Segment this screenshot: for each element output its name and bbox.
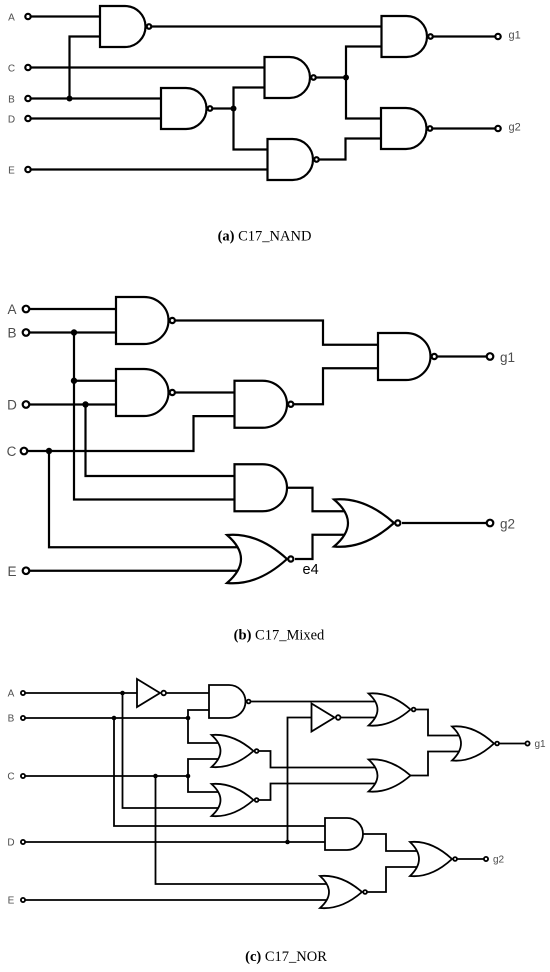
wire input D to NAND U2 pin 2 bbox=[28, 117, 161, 119]
input terminal C bbox=[21, 774, 25, 778]
wire NOR U23 output to terminal g1 bbox=[500, 743, 528, 745]
output terminal g2 bbox=[487, 520, 494, 527]
wire input D to NAND U8 pin 2 bbox=[26, 403, 116, 405]
wire node C2 down to NOR U17 pin 1 bbox=[188, 776, 226, 792]
wire node C down to NOR U11 pin 1 bbox=[49, 451, 242, 547]
junction node C on input C line bbox=[46, 448, 52, 454]
NOR gate U11 inputs C,E output e4 bbox=[227, 535, 293, 584]
wire node B down to AND U10 pin 2 bbox=[74, 333, 236, 500]
AND gate U19 bbox=[325, 818, 363, 850]
wire input C to NAND U9 pin 2 bbox=[24, 416, 236, 451]
NAND gate U3 inputs C,N1 bbox=[265, 57, 316, 98]
wire input C line bbox=[23, 775, 188, 777]
junction node B on input B line bbox=[67, 96, 73, 102]
inverter U14 input A bbox=[137, 679, 166, 707]
inverter U18 input D bbox=[312, 704, 341, 732]
input terminal A bbox=[23, 306, 30, 313]
wire input A to NAND U7 pin 1 bbox=[26, 308, 116, 310]
wire inverter U18 output to NOR U20 pin 2 bbox=[341, 717, 383, 719]
wire node C down to NOR U21 pin 1 bbox=[156, 776, 335, 884]
wire node N1 to NAND U3 pin 2 bbox=[234, 88, 267, 109]
output terminal g1 bbox=[487, 353, 494, 360]
svg-text:(c) C17_NOR: (c) C17_NOR bbox=[245, 949, 327, 965]
svg-text:E: E bbox=[7, 564, 16, 579]
wire NAND U8 output to NAND U9 pin 1 bbox=[169, 391, 237, 393]
AND gate U10 inputs D,B bbox=[235, 464, 288, 511]
wire input E to NOR U21 pin 2 bbox=[23, 899, 334, 901]
wire NOR U21 output to NOR U24 pin 2 bbox=[368, 867, 425, 892]
input terminal E bbox=[21, 898, 25, 902]
wire NAND U5 output to terminal g1 bbox=[427, 35, 498, 37]
svg-text:B: B bbox=[8, 714, 15, 725]
input terminal E bbox=[25, 167, 30, 172]
junction node D on input D line bbox=[82, 401, 88, 407]
wire NOR U20 output to NOR U23 pin 1 bbox=[416, 710, 467, 736]
NAND gate U2 inputs B,D bbox=[161, 88, 212, 129]
output terminal g1 bbox=[495, 34, 500, 39]
wire OR U22 output to NOR U23 pin 2 bbox=[411, 752, 467, 776]
NAND gate U8 inputs B,D bbox=[116, 369, 175, 416]
wire NOR U16 output to OR U22 pin 1 bbox=[259, 751, 383, 768]
junction node N2 at NAND U3 output bbox=[343, 75, 349, 81]
svg-text:B: B bbox=[7, 326, 16, 341]
output terminal g2 bbox=[484, 857, 488, 861]
input terminal B bbox=[23, 329, 30, 336]
wire NOR U13 output to terminal g2 bbox=[402, 522, 490, 524]
NAND gate U6 output g2 bbox=[381, 108, 432, 149]
output terminal g1 bbox=[525, 741, 529, 745]
svg-text:g2: g2 bbox=[500, 517, 515, 532]
input terminal A bbox=[25, 14, 30, 19]
wire input E to NAND U4 pin 2 bbox=[28, 168, 269, 170]
svg-text:D: D bbox=[8, 115, 15, 126]
wire NAND U2 output to node N1 bbox=[207, 107, 234, 109]
wire AND U10 output to NOR U13 pin 1 bbox=[287, 488, 348, 512]
wire NOR U24 output to terminal g2 bbox=[458, 858, 487, 860]
junction node B on input B line bbox=[71, 329, 77, 335]
input terminal D bbox=[21, 840, 25, 844]
input terminal D bbox=[25, 116, 30, 121]
wire node N1 to NAND U4 pin 1 bbox=[234, 109, 270, 150]
wire NOR U11 e4 output to NOR U13 pin 2 bbox=[295, 535, 348, 559]
wire NAND U3 output to node N2 bbox=[310, 76, 346, 78]
wire input A to inverter U14 bbox=[23, 692, 137, 694]
junction node B2 on B vertical bbox=[71, 378, 77, 384]
junction node C2 on input C line bbox=[186, 774, 191, 779]
svg-text:B: B bbox=[8, 95, 15, 106]
wire NAND U6 output to terminal g2 bbox=[427, 127, 499, 129]
wire node N2 to NAND U5 pin 2 bbox=[346, 47, 383, 78]
junction node B2 on input B line bbox=[186, 716, 191, 721]
wire input B to NAND U2 pin 1 bbox=[28, 97, 161, 99]
junction node A on input A line bbox=[120, 691, 125, 696]
svg-text:g2: g2 bbox=[509, 122, 521, 134]
input terminal B bbox=[25, 96, 30, 101]
svg-text:g1: g1 bbox=[535, 739, 547, 750]
svg-text:(b) C17_Mixed: (b) C17_Mixed bbox=[234, 628, 325, 644]
wire NAND U12 output to terminal g1 bbox=[431, 355, 491, 357]
wire NAND U7 output to NAND U12 pin 1 bbox=[169, 321, 379, 345]
wire input B line bbox=[23, 717, 188, 719]
svg-text:D: D bbox=[7, 398, 17, 413]
input terminal D bbox=[23, 401, 30, 408]
svg-text:E: E bbox=[8, 896, 15, 907]
wire input D to AND U19 pin 2 bbox=[23, 841, 327, 843]
input terminal A bbox=[21, 691, 25, 695]
wire NAND U9 output to NAND U12 pin 2 bbox=[287, 368, 378, 404]
wire NAND U1 output to NAND U5 pin 1 bbox=[146, 25, 384, 27]
wire node A down to NOR U17 pin 2 bbox=[123, 693, 227, 808]
wire node D up to inverter U18 bbox=[288, 718, 312, 843]
wire node N2 to NAND U6 pin 1 bbox=[346, 78, 383, 119]
NAND gate U12 output g1 bbox=[378, 333, 437, 380]
svg-text:g1: g1 bbox=[500, 350, 515, 365]
input terminal C bbox=[25, 65, 30, 70]
wire AND U19 output to NOR U24 pin 1 bbox=[363, 834, 424, 851]
output terminal g2 bbox=[495, 126, 500, 131]
svg-text:g1: g1 bbox=[509, 30, 521, 42]
NAND gate U4 inputs N1,E bbox=[268, 139, 319, 180]
junction node D on input D line bbox=[285, 840, 290, 845]
NAND gate U7 inputs A,B bbox=[116, 297, 175, 344]
NAND gate U9 inputs U8,C bbox=[235, 381, 294, 428]
svg-text:A: A bbox=[8, 689, 15, 700]
junction node C on input C line bbox=[153, 774, 158, 779]
OR gate U22 bbox=[369, 759, 411, 791]
svg-text:C: C bbox=[7, 444, 17, 459]
svg-text:C: C bbox=[7, 772, 14, 783]
junction node N1 at NAND U2 output bbox=[231, 106, 237, 112]
NOR gate U24 output g2 bbox=[410, 842, 457, 876]
wire node B2 up to NAND U15 pin 2 bbox=[188, 710, 210, 718]
wire node B2 down to NOR U16 pin 1 bbox=[188, 718, 226, 743]
svg-text:e4: e4 bbox=[303, 562, 319, 578]
NAND gate U5 output g1 bbox=[382, 16, 433, 57]
svg-text:D: D bbox=[7, 838, 14, 849]
NAND gate U1 inputs A,B bbox=[100, 6, 151, 47]
svg-text:C: C bbox=[8, 64, 15, 75]
junction node B on input B line bbox=[112, 716, 117, 721]
NOR gate U17 bbox=[212, 784, 259, 816]
input terminal B bbox=[21, 716, 25, 720]
NOR gate U13 output g2 bbox=[334, 499, 400, 547]
wire input C to NAND U3 pin 1 bbox=[28, 66, 266, 68]
wire node C2 up to NOR U16 pin 2 bbox=[188, 759, 226, 776]
NOR gate U20 bbox=[369, 693, 416, 725]
wire inverter U14 output to NAND U15 pin 1 bbox=[166, 692, 210, 694]
wire NOR U17 output to OR U22 pin 2 bbox=[259, 784, 383, 801]
input terminal C bbox=[21, 448, 28, 455]
svg-text:g2: g2 bbox=[493, 855, 505, 866]
svg-text:(a) C17_NAND: (a) C17_NAND bbox=[218, 229, 312, 245]
wire NAND U4 output to NAND U6 pin 2 bbox=[313, 139, 383, 160]
input terminal E bbox=[23, 567, 30, 574]
wire node D down to AND U10 pin 1 bbox=[86, 405, 237, 477]
wire NAND U15 output to NOR U20 pin 1 bbox=[246, 701, 383, 703]
svg-text:A: A bbox=[7, 302, 16, 317]
wire input B to NAND U7 pin 2 bbox=[26, 331, 116, 333]
NOR gate U21 bbox=[320, 876, 367, 908]
svg-text:E: E bbox=[8, 166, 15, 177]
wire node B down to AND U19 pin 1 bbox=[114, 718, 327, 826]
wire node B branch to NAND U8 pin 1 bbox=[74, 380, 116, 382]
NOR gate U23 output g1 bbox=[452, 726, 499, 760]
NAND gate U15 bbox=[209, 685, 251, 718]
wire input A to NAND U1 pin 1 bbox=[28, 15, 100, 17]
wire node B branch to NAND U1 pin 2 bbox=[70, 37, 101, 99]
svg-text:A: A bbox=[8, 13, 15, 24]
NOR gate U16 bbox=[212, 735, 259, 767]
wire input E to NOR U11 pin 2 bbox=[26, 570, 242, 572]
